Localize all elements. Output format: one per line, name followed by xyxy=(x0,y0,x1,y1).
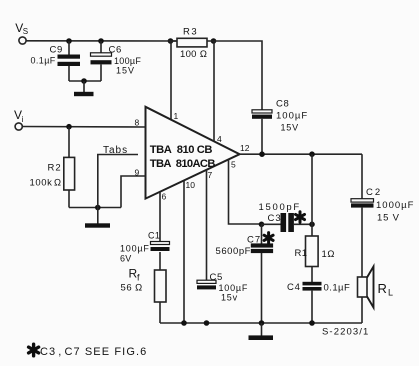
svg-text:15 V: 15 V xyxy=(377,213,400,224)
svg-text:C7: C7 xyxy=(247,234,261,245)
svg-text:4: 4 xyxy=(217,134,222,144)
capacitor C9 xyxy=(31,41,81,81)
terminal Vs xyxy=(15,21,28,44)
wire (output branch down to R1) xyxy=(311,154,313,236)
node (pin5/C3/C7 junction) xyxy=(259,222,265,228)
node (C9 tap) xyxy=(66,38,72,44)
svg-text:100µF: 100µF xyxy=(276,111,308,122)
svg-text:C3 , C7 SEE FIG.6: C3 , C7 SEE FIG.6 xyxy=(40,346,147,358)
resistor R2 xyxy=(30,127,75,208)
resistor Rf xyxy=(121,267,167,324)
svg-text:C5: C5 xyxy=(210,272,223,283)
svg-text:100µF: 100µF xyxy=(219,283,249,293)
svg-text:i: i xyxy=(22,115,24,124)
ground (bottom rail) xyxy=(249,323,274,340)
svg-text:R1: R1 xyxy=(295,248,308,259)
resistor R1 xyxy=(295,236,336,282)
node (C8 output junction) xyxy=(259,151,265,157)
pin 8 xyxy=(135,118,140,128)
svg-text:C3: C3 xyxy=(268,213,282,224)
svg-text:Tabs: Tabs xyxy=(103,145,128,156)
svg-text:C6: C6 xyxy=(109,45,122,56)
svg-text:TBA 810 CB: TBA 810 CB xyxy=(150,144,213,156)
svg-text:1Ω: 1Ω xyxy=(322,249,336,260)
svg-text:R2: R2 xyxy=(48,163,62,174)
pin 7 xyxy=(207,170,213,280)
svg-text:56 Ω: 56 Ω xyxy=(121,283,143,294)
svg-text:10: 10 xyxy=(186,180,196,190)
wire (R2 bottom to pin 9 corner) xyxy=(69,207,121,209)
node (R3 left / pin1) xyxy=(168,38,174,44)
pin 5 xyxy=(229,159,262,224)
wire (output to C2) xyxy=(361,154,363,198)
svg-text:R3: R3 xyxy=(183,27,198,38)
svg-text:8: 8 xyxy=(135,118,140,128)
svg-text:15v: 15v xyxy=(221,293,238,303)
svg-text:100 Ω: 100 Ω xyxy=(180,49,207,60)
svg-text:C4: C4 xyxy=(287,282,301,293)
svg-text:C9: C9 xyxy=(50,45,63,56)
ground (under C9/C6) xyxy=(74,81,94,96)
svg-text:6: 6 xyxy=(162,192,167,202)
svg-text:R: R xyxy=(378,281,387,296)
wire (R3 right to C8 branch) xyxy=(207,41,262,110)
wire (C9-C6 join) xyxy=(69,80,101,82)
svg-text:0.1µF: 0.1µF xyxy=(31,56,56,66)
pin 6 xyxy=(160,192,167,243)
capacitor C1 xyxy=(120,231,170,271)
node (C5 on rail) xyxy=(204,320,210,326)
svg-text:5600pF: 5600pF xyxy=(216,246,252,257)
svg-text:0.1µF: 0.1µF xyxy=(324,283,351,294)
node (ground stub) xyxy=(81,78,87,84)
svg-text:15V: 15V xyxy=(116,66,135,76)
svg-text:100µF: 100µF xyxy=(114,56,141,66)
svg-text:1: 1 xyxy=(174,111,179,121)
svg-text:S-2203/1: S-2203/1 xyxy=(322,327,369,338)
svg-text:TBA 810ACB: TBA 810ACB xyxy=(150,158,216,170)
capacitor C6 xyxy=(91,41,142,81)
node (C4 on rail) xyxy=(309,320,315,326)
capacitor C8 xyxy=(252,99,308,155)
node (R2 tap) xyxy=(66,124,72,130)
node (pin10 on rail) xyxy=(181,320,187,326)
capacitor C7 xyxy=(216,224,274,323)
pin 10 xyxy=(184,180,195,323)
pin 1 xyxy=(171,41,179,121)
svg-text:12: 12 xyxy=(240,143,250,153)
capacitor C2 xyxy=(351,187,414,277)
svg-text:9: 9 xyxy=(135,167,140,177)
svg-text:C8: C8 xyxy=(276,99,289,110)
note C3 C7 see fig.6 xyxy=(29,344,148,358)
svg-text:15V: 15V xyxy=(281,123,299,133)
svg-text:f: f xyxy=(137,273,140,283)
pin 12 (output) xyxy=(240,143,362,154)
svg-text:100µF: 100µF xyxy=(120,244,150,254)
resistor R3 xyxy=(177,27,207,61)
ground (under tab junction) xyxy=(85,208,110,228)
svg-text:1000µF: 1000µF xyxy=(376,200,414,211)
speaker RL xyxy=(358,267,394,324)
wire (bottom rail) xyxy=(160,322,362,324)
svg-text:100k Ω: 100k Ω xyxy=(30,178,62,189)
svg-text:1500pF: 1500pF xyxy=(259,202,301,213)
capacitor C5 xyxy=(197,272,248,303)
node (R1 branch junction) xyxy=(309,151,315,157)
pin 9 xyxy=(121,167,146,207)
node (R3 right / pin4) xyxy=(211,38,217,44)
wire (R3 left joins rail) xyxy=(168,40,177,42)
wire (Vs supply rail) xyxy=(26,40,177,42)
svg-text:C1: C1 xyxy=(148,231,160,241)
svg-text:7: 7 xyxy=(208,170,213,180)
node (C7/ground on rail) xyxy=(259,320,265,326)
tab connection xyxy=(98,145,138,208)
pin 4 xyxy=(214,41,222,144)
op-amp U1 TBA810 xyxy=(146,107,240,199)
capacitor C3 xyxy=(259,202,313,232)
node (C6 tap) xyxy=(98,38,104,44)
svg-text:L: L xyxy=(388,288,393,298)
svg-text:6V: 6V xyxy=(120,254,132,264)
capacitor C4 xyxy=(287,282,350,323)
node (C3 right junction) xyxy=(309,222,315,228)
svg-text:C2: C2 xyxy=(366,187,382,198)
wire (Vi to pin 8) xyxy=(22,126,145,129)
svg-text:S: S xyxy=(23,27,28,36)
svg-text:5: 5 xyxy=(231,160,236,170)
node (tab/ground junction) xyxy=(95,205,101,211)
terminal Vi xyxy=(14,108,24,130)
